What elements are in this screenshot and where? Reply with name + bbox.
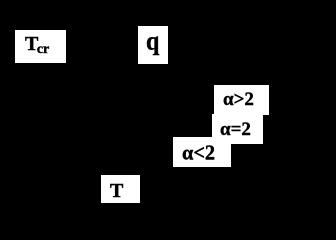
label box alpha>2	[214, 85, 269, 115]
label box alpha=2	[212, 114, 263, 144]
label box q (y-axis: heat release rate)	[138, 26, 168, 64]
label box T (x-axis: temperature)	[101, 175, 140, 203]
label box Tcr (critical temperature)	[15, 30, 66, 63]
label box alpha<2	[173, 137, 231, 167]
